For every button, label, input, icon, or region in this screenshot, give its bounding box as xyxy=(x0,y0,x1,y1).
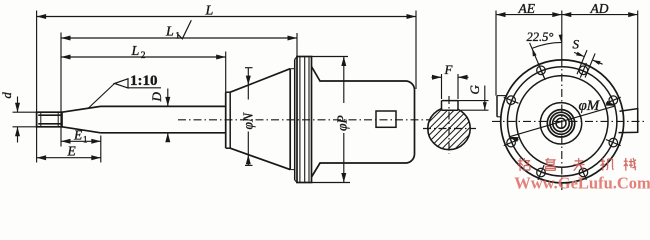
svg-text:φM: φM xyxy=(579,98,601,114)
svg-text:E: E xyxy=(67,143,77,158)
svg-text:L: L xyxy=(165,25,174,40)
svg-text:L: L xyxy=(205,4,214,19)
svg-text:L: L xyxy=(131,44,140,59)
svg-text:d: d xyxy=(0,92,14,99)
svg-text:φP: φP xyxy=(335,115,350,131)
svg-text:1:10: 1:10 xyxy=(130,73,158,89)
svg-text:G: G xyxy=(467,85,482,95)
svg-text:AD: AD xyxy=(590,1,609,16)
svg-text:1: 1 xyxy=(83,134,88,144)
svg-text:AE: AE xyxy=(518,1,536,16)
svg-text:φN: φN xyxy=(241,112,256,129)
svg-text:Www.GeLufu.Com: Www.GeLufu.Com xyxy=(514,174,650,193)
svg-text:F: F xyxy=(444,62,454,77)
svg-text:S: S xyxy=(573,37,580,52)
svg-text:22.5°: 22.5° xyxy=(527,30,554,44)
svg-text:2: 2 xyxy=(141,51,146,61)
svg-text:E: E xyxy=(73,127,83,142)
svg-text:D: D xyxy=(149,92,164,103)
